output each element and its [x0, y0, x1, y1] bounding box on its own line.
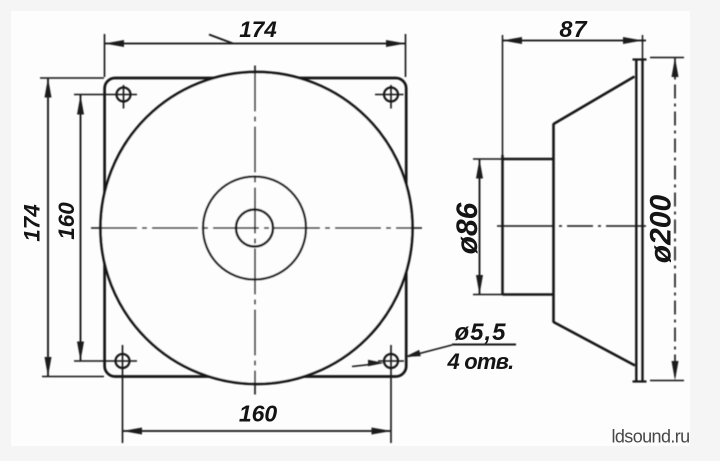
dimension 87: line — [503, 40, 647, 42]
dimension ø200: extension lines — [650, 57, 684, 59]
svg-text:174: 174 — [20, 204, 45, 242]
dimension 174 left: arrows — [45, 78, 52, 98]
magnet bottom edge — [503, 293, 554, 296]
flange outer vertical — [641, 60, 643, 382]
label ø5,5 second arrow — [352, 365, 370, 367]
dimension 174 top: leader tick — [209, 35, 233, 44]
hole top-right — [384, 88, 398, 102]
dimension 87: arrows — [503, 37, 523, 44]
flange outer extension up (87) — [642, 35, 644, 60]
middle circle — [203, 177, 306, 280]
dimension 174 top: extension lines — [104, 34, 106, 77]
svg-text:ø86: ø86 — [451, 202, 484, 254]
flange top edge — [633, 58, 647, 60]
magnet rear face (and 87 extension) — [502, 35, 504, 155]
svg-text:174: 174 — [239, 17, 277, 42]
magnet top extension (ø86) — [473, 158, 503, 160]
magnet bottom extension (ø86) — [473, 294, 503, 296]
dimension ø86: line — [479, 159, 481, 295]
diffuser rim circle — [101, 72, 413, 384]
magnet top edge — [503, 158, 554, 161]
flange inner vertical — [635, 60, 637, 382]
cone top diagonal — [554, 77, 635, 125]
dimension 174 left: extension lines — [40, 77, 104, 79]
hole bottom-right — [384, 354, 398, 368]
cone bottom diagonal — [554, 322, 636, 366]
svg-text:ø200: ø200 — [645, 195, 678, 264]
svg-text:4 отв.: 4 отв. — [447, 349, 514, 374]
dimension 160 bottom: line — [123, 430, 392, 432]
svg-text:ø5,5: ø5,5 — [454, 319, 506, 346]
side view centerline — [497, 225, 646, 227]
dimension ø86: arrows — [476, 159, 483, 179]
dimension ø200: line — [674, 58, 676, 381]
dimension 160 left: arrows — [77, 95, 84, 115]
dimension 174 top: line — [105, 43, 406, 45]
flange bottom edge — [633, 380, 647, 382]
flange square outline — [105, 78, 407, 377]
label fraction bar — [452, 344, 516, 346]
vertical centerline — [254, 66, 256, 395]
hole top-left — [117, 88, 131, 102]
dust cap circle — [236, 210, 273, 247]
dimension 174 left: line — [47, 78, 49, 377]
horizontal centerline — [91, 227, 422, 229]
dimension 160 left: line — [80, 95, 82, 362]
dimension 160 bottom: arrows — [123, 428, 143, 435]
label ø5,5 leader — [408, 345, 452, 357]
svg-text:ldsound.ru: ldsound.ru — [612, 427, 690, 447]
dimension ø200: arrows — [672, 58, 679, 78]
dimension 174 top: arrows — [105, 40, 125, 47]
svg-text:160: 160 — [54, 202, 79, 240]
svg-text:160: 160 — [239, 401, 278, 427]
svg-text:87: 87 — [559, 16, 587, 42]
hole bottom-left — [116, 354, 130, 368]
basket rear vertical — [552, 124, 555, 323]
